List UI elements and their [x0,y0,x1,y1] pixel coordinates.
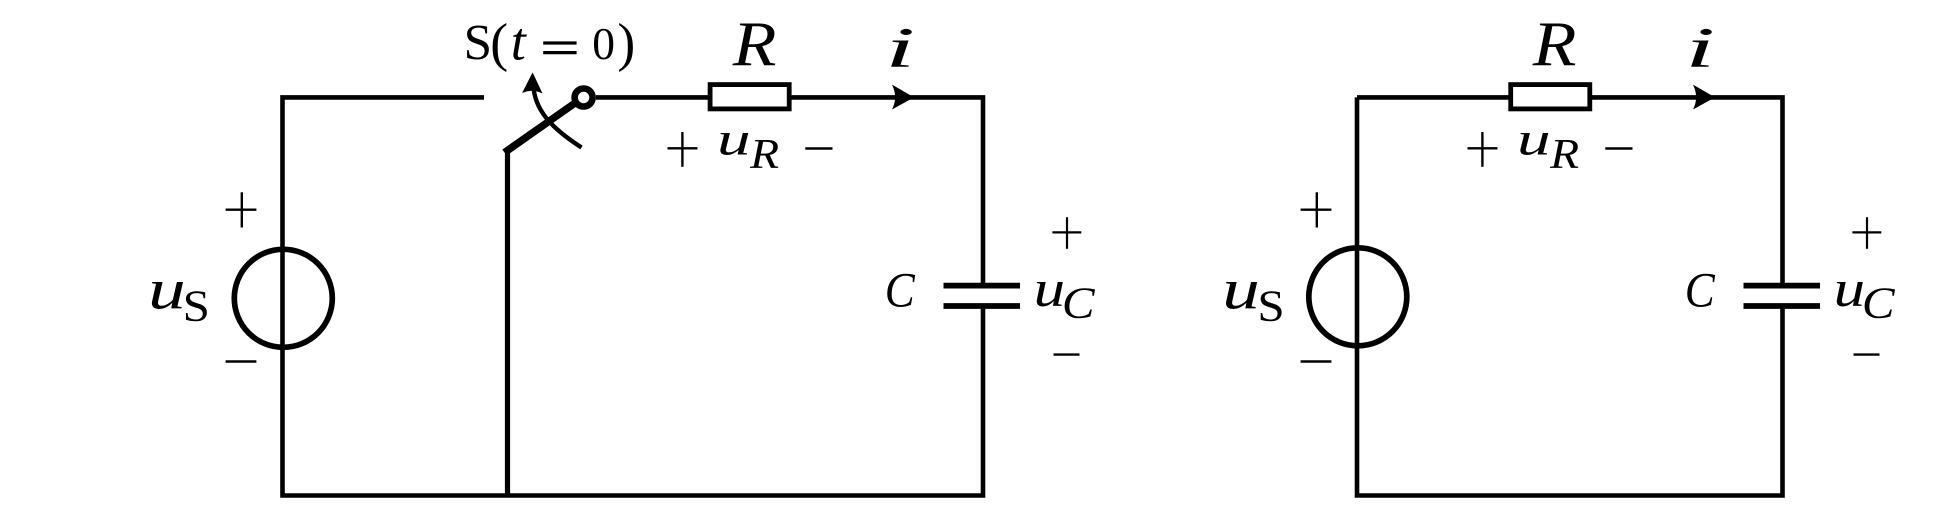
svg-text:C: C [1685,263,1716,318]
svg-text:(: ( [490,12,508,72]
svg-text:u: u [1517,113,1551,165]
svg-text:i: i [1685,17,1715,80]
svg-text:C: C [1062,279,1095,328]
svg-text:R: R [732,8,777,79]
svg-text:R: R [1549,132,1579,178]
svg-text:C: C [885,263,916,318]
svg-text:u: u [148,259,186,322]
svg-text:S: S [464,16,492,72]
svg-text:0: 0 [592,18,615,69]
svg-text:S: S [183,281,210,330]
svg-text:S: S [1257,281,1284,330]
svg-text:R: R [1532,8,1577,79]
svg-text:u: u [1834,261,1866,318]
svg-text:t: t [511,12,528,72]
svg-text:C: C [1862,279,1895,328]
svg-text:u: u [1222,259,1260,322]
svg-text:): ) [617,12,635,72]
svg-text:R: R [749,132,779,178]
svg-text:i: i [885,17,915,80]
svg-text:u: u [717,113,751,165]
svg-text:u: u [1034,261,1066,318]
